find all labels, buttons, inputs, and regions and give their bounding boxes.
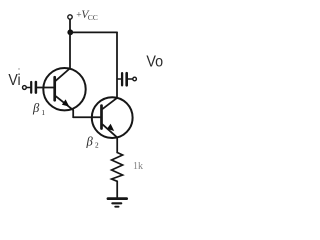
svg-text:Vi: Vi [8,71,20,89]
label beta2 [86,134,100,149]
svg-text:1: 1 [41,108,45,117]
svg-text:2: 2 [95,141,99,150]
terminal Vi [23,86,27,90]
capacitor C2 [117,73,132,85]
capacitor C1 [27,82,54,93]
node speck above Vi [18,68,19,69]
transistor Q2 [92,97,133,138]
wire [72,110,74,117]
svg-text:CC: CC [88,13,98,22]
ground [108,199,127,207]
wire [69,19,71,30]
svg-text:β: β [86,134,94,148]
terminal Vo [133,77,137,81]
wire [116,32,118,97]
label +VCC [76,9,98,22]
wire [116,138,118,153]
svg-text:Vo: Vo [146,53,163,71]
wire [73,116,100,118]
wire [116,181,118,197]
node junction [67,29,73,35]
terminal +VCC [68,15,72,19]
wire [69,32,71,68]
transistor Q1 [43,68,85,110]
svg-text:1k: 1k [133,161,143,172]
resistor R1 1k [112,153,123,182]
wire [70,31,117,33]
svg-text:β: β [32,101,40,115]
label beta1 [32,101,45,117]
